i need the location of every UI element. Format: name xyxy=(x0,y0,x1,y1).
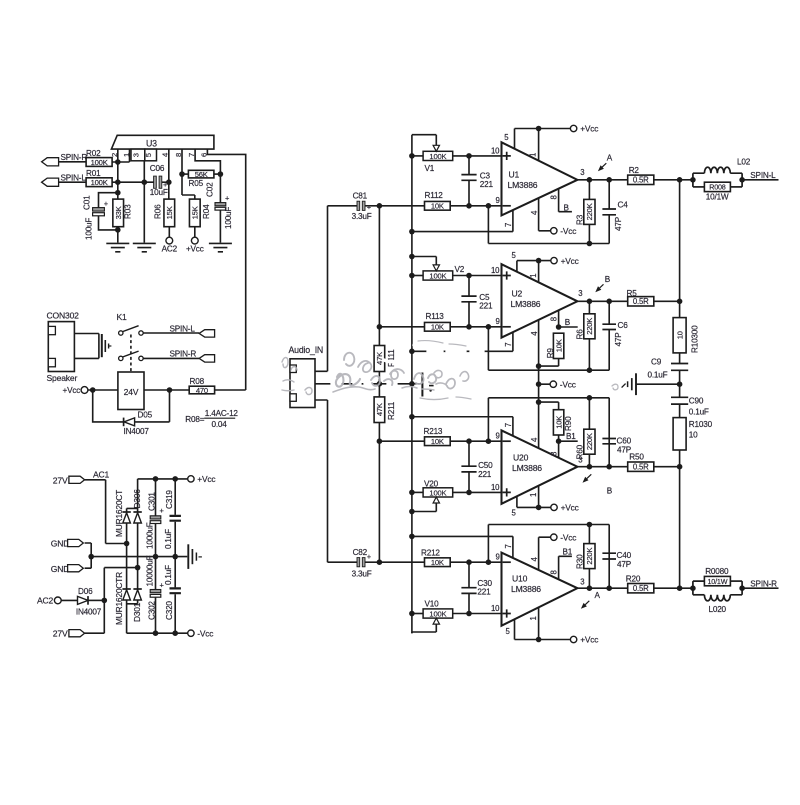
wire R04 to +Vcc terminal xyxy=(194,227,196,237)
wire -input to feedback xyxy=(487,206,489,244)
ground xyxy=(209,243,232,251)
terminal -Vcc U10 xyxy=(551,534,557,540)
terminal +Vcc xyxy=(188,476,194,482)
capacitor plate node xyxy=(412,383,421,385)
resistor R1030 10 xyxy=(673,418,686,450)
resistor R05 56K xyxy=(182,173,188,175)
svg-text:1: 1 xyxy=(529,493,538,497)
wire ground mid rail xyxy=(91,556,187,558)
wire SPIN-L to R01 xyxy=(59,181,87,183)
wire R06 to AC2 terminal xyxy=(168,227,170,237)
svg-text:220K: 220K xyxy=(585,203,594,220)
wire pin3/5 column to ground xyxy=(143,161,145,243)
svg-text:C4: C4 xyxy=(618,201,629,210)
svg-text:10: 10 xyxy=(491,483,500,492)
capacitor C90 0.1uF xyxy=(679,384,681,417)
wire 27V to AC2 node xyxy=(85,600,105,633)
svg-text:C301: C301 xyxy=(148,492,157,511)
pin 3 output wire xyxy=(577,587,627,589)
svg-text:A: A xyxy=(607,154,613,163)
wire input rail mid xyxy=(378,372,380,397)
svg-text:470: 470 xyxy=(196,386,208,395)
wire pot V1 to +input xyxy=(453,155,502,157)
minus input symbol xyxy=(503,561,511,563)
svg-text:0.1uF: 0.1uF xyxy=(689,408,709,417)
capacitor C30 221 xyxy=(468,562,470,613)
svg-text:221: 221 xyxy=(479,302,493,311)
capacitor C60 47P xyxy=(488,398,609,467)
wire pin8 column xyxy=(182,149,195,199)
IC U3 body xyxy=(111,135,213,149)
svg-text:15K: 15K xyxy=(165,206,174,219)
relay switch contact 1 xyxy=(119,331,123,335)
svg-text:Speaker: Speaker xyxy=(47,373,78,383)
relay coil 24V xyxy=(118,372,144,410)
capacitor C6 47P xyxy=(488,301,609,370)
svg-text:R08: R08 xyxy=(190,377,205,386)
svg-text:8: 8 xyxy=(549,317,558,321)
svg-text:220K: 220K xyxy=(585,547,594,564)
svg-text:15K: 15K xyxy=(191,206,200,219)
svg-text:B: B xyxy=(564,203,570,212)
wire CON302 contacts xyxy=(74,334,99,359)
svg-text:K1: K1 xyxy=(117,312,128,322)
svg-text:10K: 10K xyxy=(431,437,444,446)
input tag SPIN-L xyxy=(42,178,59,186)
wire SPIN-R to R02 xyxy=(59,161,87,163)
wire GND tags join xyxy=(85,543,92,568)
pin 5 and pin 1 to +Vcc rail xyxy=(517,261,551,283)
minus input symbol xyxy=(503,205,511,207)
svg-text:10000uF: 10000uF xyxy=(146,555,155,586)
svg-text:C319: C319 xyxy=(165,490,174,509)
wire R08 to pin6 rail xyxy=(215,389,246,391)
svg-text:R03: R03 xyxy=(124,204,133,219)
resistor R04 15K xyxy=(189,199,200,227)
svg-text:R06: R06 xyxy=(153,204,162,219)
svg-text:LM3886: LM3886 xyxy=(511,584,541,594)
pin 4 to -Vcc xyxy=(539,401,559,403)
svg-text:R213: R213 xyxy=(424,427,443,436)
svg-text:10: 10 xyxy=(689,430,698,439)
resistor R90 10K on U20 pin8 xyxy=(556,438,562,444)
svg-text:10: 10 xyxy=(675,331,684,339)
pin 4 to -Vcc xyxy=(539,537,551,570)
svg-text:9: 9 xyxy=(496,196,500,205)
svg-text:R30: R30 xyxy=(576,554,585,569)
svg-text:U10: U10 xyxy=(512,574,528,584)
wire input rail upper xyxy=(378,206,380,346)
svg-text:R1030: R1030 xyxy=(689,420,713,429)
svg-text:IN4007: IN4007 xyxy=(124,427,150,436)
wire -Vcc rail xyxy=(127,632,188,634)
svg-text:C5: C5 xyxy=(479,293,490,302)
svg-text:B: B xyxy=(605,275,611,284)
terminal +Vcc xyxy=(551,504,557,510)
svg-text:R08=: R08= xyxy=(185,415,204,424)
svg-text:B: B xyxy=(607,487,613,496)
svg-text:LM3886: LM3886 xyxy=(512,463,542,473)
svg-text:SPIN-L: SPIN-L xyxy=(750,171,776,180)
watermark xyxy=(332,345,483,389)
svg-text:B: B xyxy=(565,318,571,327)
svg-text:24V: 24V xyxy=(124,387,139,397)
svg-text:C6: C6 xyxy=(618,321,629,330)
svg-text:7: 7 xyxy=(504,223,513,227)
svg-text:221: 221 xyxy=(477,588,491,597)
wire R112 input xyxy=(379,205,424,207)
pin 8 stub xyxy=(559,556,572,579)
svg-text:R50: R50 xyxy=(629,453,644,462)
svg-text:R9: R9 xyxy=(546,348,555,359)
capacitor C40 47P xyxy=(488,525,609,589)
svg-text:D301: D301 xyxy=(132,602,142,622)
svg-text:8: 8 xyxy=(549,195,558,199)
svg-text:C90: C90 xyxy=(689,397,704,406)
svg-text:R2: R2 xyxy=(629,166,640,175)
op-amp U10 LM3886 xyxy=(502,553,578,626)
wire pin4 column xyxy=(168,149,170,199)
pin 8 stub xyxy=(559,188,572,211)
svg-text:3: 3 xyxy=(580,578,584,587)
svg-text:C320: C320 xyxy=(165,601,174,620)
wire R01 to pin3/5 ground column xyxy=(112,181,154,183)
wire D06 to bridge xyxy=(89,599,105,601)
svg-text:+Vcc: +Vcc xyxy=(580,124,598,134)
wire AC2 to D06 xyxy=(61,599,77,601)
wiper of V2 xyxy=(412,257,436,265)
svg-text:R212: R212 xyxy=(421,548,440,557)
svg-text:C82: C82 xyxy=(353,548,368,557)
capacitor C301 1000uF xyxy=(155,479,157,557)
wire C01 bottom to R03 bottom xyxy=(99,216,118,230)
svg-text:0.5R: 0.5R xyxy=(633,584,649,593)
relay switch contact 2 xyxy=(119,356,123,360)
svg-text:10: 10 xyxy=(491,266,500,275)
pin 3 output wire xyxy=(577,466,627,468)
wire output bus upper xyxy=(679,180,681,318)
svg-text:3: 3 xyxy=(580,168,584,177)
svg-text:R02: R02 xyxy=(86,149,101,158)
pin 8 stub xyxy=(559,441,578,458)
svg-text:47P: 47P xyxy=(617,560,632,569)
svg-text:V2: V2 xyxy=(455,265,465,274)
capacitor C4 47P xyxy=(488,180,609,244)
wire left diode column xyxy=(126,523,128,589)
svg-text:R008: R008 xyxy=(709,183,726,192)
plus input symbol xyxy=(503,152,511,160)
svg-text:V20: V20 xyxy=(424,479,439,488)
svg-text:C30: C30 xyxy=(477,579,492,588)
wire Audio_IN top pin to C81 line xyxy=(315,206,328,371)
wire R03 bottom to ground xyxy=(117,227,119,243)
wire pot V10 to +input xyxy=(453,613,502,615)
svg-text:100K: 100K xyxy=(429,152,446,161)
resistor R111 47K xyxy=(374,346,385,372)
svg-text:MUR1620CTR: MUR1620CTR xyxy=(114,572,124,625)
svg-text:LM3886: LM3886 xyxy=(508,180,538,190)
wire R213 input xyxy=(379,440,424,442)
wiper of V1 xyxy=(412,135,436,146)
ground symbol right-facing xyxy=(187,544,189,569)
minus input symbol xyxy=(503,326,511,328)
svg-text:9: 9 xyxy=(496,317,500,326)
svg-text:+Vcc: +Vcc xyxy=(561,256,579,266)
resistor R30 220K xyxy=(588,525,590,589)
wire R112 to -input xyxy=(450,205,501,207)
svg-text:10/1W: 10/1W xyxy=(706,193,729,202)
terminal +Vcc xyxy=(191,237,198,244)
wire C01 top to R03 node xyxy=(99,193,118,208)
plus input symbol xyxy=(503,271,511,279)
capacitor C50 221 xyxy=(468,441,470,492)
wire right diode column xyxy=(137,523,139,589)
svg-text:R05: R05 xyxy=(189,179,204,188)
terminal +Vcc xyxy=(570,636,576,642)
svg-text:10K: 10K xyxy=(431,558,444,567)
svg-text:R10300: R10300 xyxy=(691,325,700,353)
pin 4 to -Vcc xyxy=(539,320,551,448)
capacitor C302 10000uF xyxy=(155,557,157,634)
svg-text:5: 5 xyxy=(144,153,153,157)
svg-text:C01: C01 xyxy=(83,195,92,210)
svg-text:C06: C06 xyxy=(150,164,165,173)
pin 5 and pin 1 to +Vcc rail xyxy=(517,486,551,508)
svg-text:Audio_IN: Audio_IN xyxy=(289,345,324,355)
svg-text:27V: 27V xyxy=(53,629,68,639)
svg-text:10/1W: 10/1W xyxy=(708,577,728,586)
svg-text:220K: 220K xyxy=(585,433,594,450)
svg-text:C3: C3 xyxy=(480,171,491,180)
test point B xyxy=(587,474,592,478)
svg-text:V10: V10 xyxy=(425,599,440,608)
wire pot V20 left xyxy=(412,491,423,493)
svg-text:0.04: 0.04 xyxy=(212,420,228,429)
pin 4 to -Vcc xyxy=(539,198,551,231)
wire bias rail xyxy=(411,135,413,634)
terminal +Vcc xyxy=(570,125,576,131)
svg-text:+Vcc: +Vcc xyxy=(580,635,598,645)
wire to SPIN-R output xyxy=(742,587,778,589)
svg-text:L020: L020 xyxy=(709,605,727,614)
wiper loop V10 bottom corner xyxy=(411,632,413,633)
test point A xyxy=(585,601,589,605)
ground symbol left-facing xyxy=(635,373,637,395)
op-amp U2 LM3886 xyxy=(502,264,578,337)
terminal -Vcc shared U2/U20 xyxy=(550,381,556,387)
wire R113 to -input xyxy=(450,326,501,328)
svg-text:221: 221 xyxy=(480,180,494,189)
pin 3 output wire xyxy=(577,179,627,181)
svg-text:0.1uF: 0.1uF xyxy=(164,565,173,585)
svg-text:10K: 10K xyxy=(431,202,444,211)
svg-text:8: 8 xyxy=(549,570,558,574)
svg-text:10K: 10K xyxy=(554,339,563,352)
resistor R60 220K xyxy=(588,398,590,467)
svg-text:10: 10 xyxy=(491,146,500,155)
svg-text:0.1uF: 0.1uF xyxy=(164,529,173,549)
wiper of V10 xyxy=(412,624,436,632)
pin 3 output wire xyxy=(577,300,627,302)
input tag SPIN-R xyxy=(42,158,59,166)
pin 8 stub xyxy=(559,310,578,327)
svg-text:B1: B1 xyxy=(566,432,576,441)
wire pin7 to C02 xyxy=(195,149,220,203)
svg-text:SPIN-L: SPIN-L xyxy=(61,174,87,183)
svg-text:9: 9 xyxy=(496,432,500,441)
pin 7 to bias rail xyxy=(412,417,513,436)
wire -input to feedback xyxy=(487,398,489,441)
capacitor C9 0.1uF xyxy=(679,353,681,384)
svg-text:CON302: CON302 xyxy=(47,310,80,320)
svg-text:100K: 100K xyxy=(91,158,108,167)
svg-text:U20: U20 xyxy=(513,453,529,463)
wire C02 to ground xyxy=(219,211,221,243)
svg-text:+Vcc: +Vcc xyxy=(561,503,579,513)
capacitor C319 0.1uF xyxy=(174,479,176,557)
svg-text:7: 7 xyxy=(504,423,513,427)
wire R05 right to pin7 column xyxy=(214,173,221,175)
diode D05 xyxy=(123,418,125,427)
wire pot V2 left xyxy=(412,275,423,277)
wire R113 input xyxy=(379,326,424,328)
svg-text:C50: C50 xyxy=(478,461,493,470)
U3 pin 3 header box xyxy=(131,149,145,161)
diode D05 IN4007 loop xyxy=(93,390,170,422)
terminal -Vcc xyxy=(188,630,194,636)
svg-text:C302: C302 xyxy=(148,601,157,620)
svg-text:0.5R: 0.5R xyxy=(633,463,649,472)
svg-text:R113: R113 xyxy=(426,312,445,321)
svg-text:U2: U2 xyxy=(512,289,523,299)
wire -input to feedback xyxy=(487,327,489,370)
svg-text:1: 1 xyxy=(529,616,538,620)
resistor R6 220K xyxy=(588,301,590,370)
wire AC1 to bridge xyxy=(85,480,127,544)
svg-text:U1: U1 xyxy=(509,170,520,180)
svg-text:GND: GND xyxy=(51,564,70,574)
resistor R211 47K xyxy=(374,397,385,423)
svg-text:A: A xyxy=(595,591,601,600)
resistor R008 10/1W xyxy=(693,186,705,188)
svg-text:47P: 47P xyxy=(614,332,623,347)
wire pot V2 to +input xyxy=(453,275,502,277)
svg-text:100K: 100K xyxy=(429,488,446,497)
wiper of V20 xyxy=(412,503,436,512)
terminal -Vcc U1 xyxy=(551,228,557,234)
pin 7 to bias rail xyxy=(412,536,513,558)
pin 7 to bias rail xyxy=(412,210,513,232)
svg-text:GND: GND xyxy=(51,539,70,549)
wire pin2 column xyxy=(117,149,119,199)
svg-text:10K: 10K xyxy=(431,323,444,332)
svg-text:R112: R112 xyxy=(425,191,444,200)
svg-text:3: 3 xyxy=(131,153,140,157)
svg-text:0.5R: 0.5R xyxy=(633,297,649,306)
svg-text:56K: 56K xyxy=(195,170,208,179)
pin 5 and pin 1 to +Vcc rail xyxy=(515,129,571,161)
U3 pin 5 header box xyxy=(145,149,157,161)
svg-text:7: 7 xyxy=(504,544,513,548)
wire output bus lower xyxy=(679,450,681,588)
plus input symbol xyxy=(503,609,511,617)
svg-text:7: 7 xyxy=(504,343,513,347)
terminal +Vcc xyxy=(551,257,557,263)
svg-text:10K: 10K xyxy=(554,416,563,429)
svg-text:+Vcc: +Vcc xyxy=(63,386,81,395)
wire -input to feedback xyxy=(487,525,489,563)
wire to ground xyxy=(677,381,683,387)
svg-text:C40: C40 xyxy=(617,551,632,560)
svg-text:AC2: AC2 xyxy=(37,596,54,606)
wire coil to R08 xyxy=(144,389,189,391)
svg-text:0.5R: 0.5R xyxy=(633,176,649,185)
svg-text:B1: B1 xyxy=(563,548,573,557)
svg-text:-Vcc: -Vcc xyxy=(560,532,576,542)
inductor L020 xyxy=(693,594,705,596)
svg-text:0.1uF: 0.1uF xyxy=(648,370,668,379)
wire pot V10 left xyxy=(412,613,423,615)
op-amp U1 LM3886 xyxy=(502,142,578,215)
svg-text:3.3uF: 3.3uF xyxy=(352,212,372,221)
svg-text:C81: C81 xyxy=(353,192,368,201)
svg-text:47K: 47K xyxy=(375,403,384,416)
svg-text:1000uF: 1000uF xyxy=(146,522,155,549)
node output right xyxy=(680,587,693,589)
wire pin6 rail to relay R08 xyxy=(207,149,245,390)
wire to SPIN-L output xyxy=(742,179,778,181)
capacitor C3 221 xyxy=(468,156,470,206)
svg-text:100K: 100K xyxy=(429,272,446,281)
wire R212 input xyxy=(379,561,424,563)
svg-text:100K: 100K xyxy=(429,610,446,619)
svg-text:220K: 220K xyxy=(585,318,594,335)
svg-text:U3: U3 xyxy=(146,139,157,149)
svg-text:R60: R60 xyxy=(576,444,585,459)
svg-text:1.4AC-12: 1.4AC-12 xyxy=(205,409,239,418)
wire Audio_IN bottom pin to C82 line xyxy=(315,400,328,562)
svg-text:9: 9 xyxy=(496,553,500,562)
capacitor C320 0.1uF xyxy=(174,557,176,634)
svg-text:100uF: 100uF xyxy=(224,207,233,229)
svg-text:100K: 100K xyxy=(91,178,108,187)
svg-text:1: 1 xyxy=(528,153,537,157)
wire pot V1 left xyxy=(412,155,423,157)
svg-text:D06: D06 xyxy=(78,587,93,596)
ground xyxy=(106,243,129,251)
wire R213 to -input xyxy=(450,440,501,442)
minus input symbol xyxy=(503,440,511,442)
svg-text:100uF: 100uF xyxy=(85,218,94,240)
svg-text:R6: R6 xyxy=(576,329,585,340)
test point A xyxy=(602,163,606,167)
svg-text:V1: V1 xyxy=(425,164,435,173)
wire pot V20 to +input xyxy=(453,491,502,493)
test point B xyxy=(600,284,604,288)
svg-text:LM3886: LM3886 xyxy=(511,299,541,309)
svg-text:SPIN-R: SPIN-R xyxy=(170,350,197,359)
tag SPIN-R xyxy=(199,355,215,362)
svg-text:MUR1620CT: MUR1620CT xyxy=(114,490,124,537)
node output left xyxy=(680,179,693,181)
wire to SPIN-R tag xyxy=(143,357,199,359)
svg-text:SPIN-R: SPIN-R xyxy=(750,580,777,589)
svg-text:+Vcc: +Vcc xyxy=(186,244,204,253)
wire +Vcc rail xyxy=(138,478,188,480)
svg-text:R111: R111 xyxy=(387,349,396,367)
svg-text:R90: R90 xyxy=(564,416,573,431)
svg-text:1: 1 xyxy=(529,274,538,278)
